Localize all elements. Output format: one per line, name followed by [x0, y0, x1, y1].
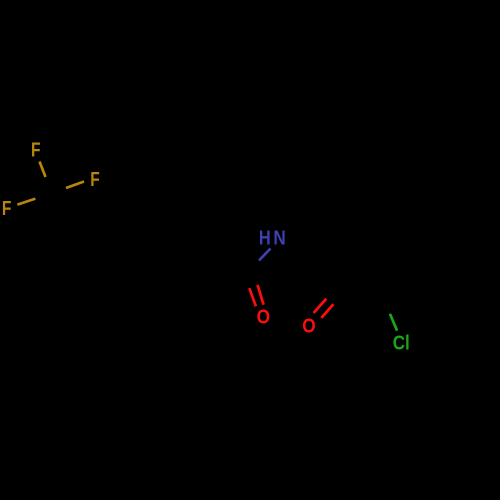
- double bond C=O2 stroke a (red): [314, 299, 327, 313]
- svg-text:F: F: [31, 140, 41, 162]
- svg-text:F: F: [90, 169, 100, 191]
- bond C-Cl (half, green): [390, 314, 397, 331]
- svg-text:O: O: [302, 316, 315, 338]
- svg-text:F: F: [2, 198, 12, 220]
- double bond C=O2 stroke b (red): [321, 304, 333, 318]
- svg-text:N: N: [273, 228, 285, 250]
- svg-text:Cl: Cl: [393, 333, 410, 355]
- double bond C=O1 stroke b (red): [258, 285, 264, 305]
- double bond C=O1 stroke a (red): [249, 288, 256, 306]
- svg-text:O: O: [257, 307, 270, 329]
- bond N-C (half, blue): [259, 249, 271, 261]
- bond C-F3 (half, olive): [17, 199, 35, 205]
- bond C-F1 (half, olive): [40, 162, 46, 178]
- svg-text:H: H: [259, 228, 271, 250]
- bond C-F2 (half, olive): [66, 182, 84, 189]
